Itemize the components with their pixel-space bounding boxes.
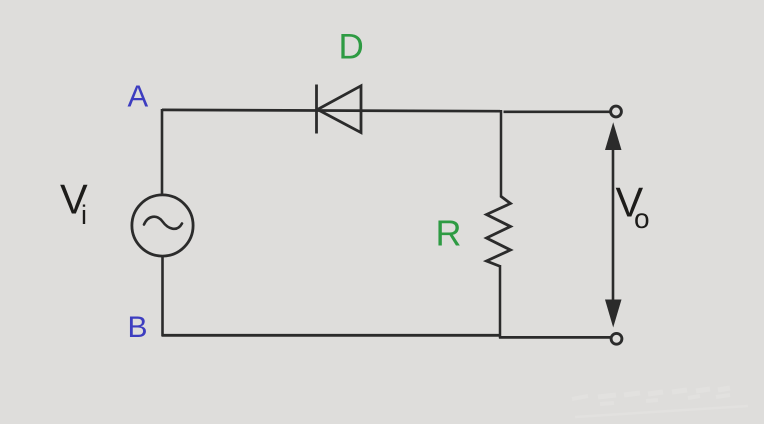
watermark — [572, 388, 748, 417]
svg-text:A: A — [128, 79, 149, 114]
svg-text:R: R — [436, 213, 462, 254]
AC source sine wave — [144, 217, 182, 229]
diode D cathode bar — [315, 85, 318, 134]
output terminal bottom (open circle) — [611, 333, 622, 344]
svg-text:i: i — [81, 200, 87, 230]
AC source V1 circle — [132, 195, 193, 256]
arrowhead down — [605, 300, 622, 328]
resistor R zigzag — [487, 196, 511, 267]
diode D triangle — [318, 86, 362, 133]
wire: resistor branch lower — [499, 265, 502, 338]
wire: left vertical upper (A corner down to source top) — [161, 109, 164, 195]
svg-text:B: B — [128, 311, 148, 344]
wire: left vertical lower (source bottom down to B corner) — [161, 256, 164, 336]
output terminal top (open circle) — [611, 106, 622, 117]
wire: top horizontal resistor junction to output terminal — [504, 110, 611, 113]
wire: bottom horizontal B to resistor junction — [162, 334, 501, 337]
wire: bottom horizontal resistor junction to output terminal — [499, 336, 612, 339]
Vo measurement arrow shaft — [612, 140, 615, 310]
arrowhead up — [605, 122, 622, 150]
wire: resistor branch upper — [500, 110, 503, 197]
svg-text:D: D — [339, 28, 364, 67]
svg-text:o: o — [634, 203, 650, 234]
wire: top horizontal A to resistor junction — [162, 110, 500, 111]
